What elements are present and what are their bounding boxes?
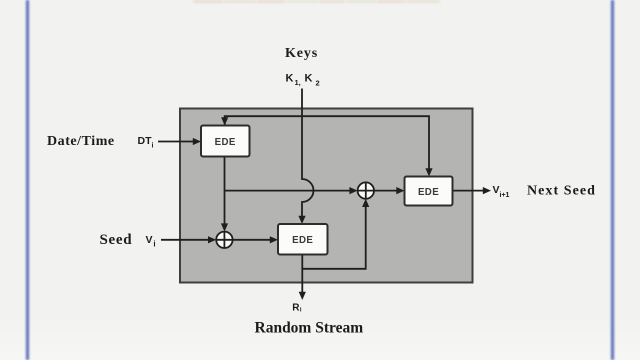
svg-text:Seed: Seed bbox=[100, 232, 133, 248]
svg-text:EDE: EDE bbox=[292, 235, 313, 246]
XOR2 circle (feedback xor) bbox=[358, 182, 374, 198]
block EDE3 (next seed encryption) bbox=[405, 177, 453, 206]
svg-text:Keys: Keys bbox=[285, 46, 318, 61]
svg-text:Vi+1: Vi+1 bbox=[493, 184, 510, 199]
slide right blue border line bbox=[611, 0, 614, 360]
cut-off slide title remnant bbox=[0, 0, 640, 1]
wire: top key branch from EDE1 to EDE3 bbox=[225, 116, 429, 169]
arrowhead into EDE2 left bbox=[270, 236, 278, 243]
svg-text:EDE: EDE bbox=[418, 187, 439, 198]
arrowhead into EDE3 top bbox=[425, 168, 432, 176]
arrowhead into EDE1 left bbox=[193, 138, 201, 145]
arrowhead into EDE3 left bbox=[396, 187, 404, 194]
arrowhead into XOR1 top bbox=[221, 223, 228, 231]
slide left blue border line bbox=[26, 0, 29, 360]
wire: XOR1 to EDE2 bbox=[233, 239, 271, 241]
wire: EDE1 bottom down to XOR1 bbox=[224, 157, 226, 225]
wire: main horizontal line to XOR2 bbox=[225, 190, 351, 192]
svg-text:DTi: DTi bbox=[138, 135, 154, 150]
arrowhead into XOR1 left bbox=[208, 236, 216, 243]
wire: EDE3 output to next seed bbox=[453, 190, 484, 192]
wire: XOR2 to EDE3 bbox=[374, 190, 398, 192]
arrowhead up into XOR2 bottom bbox=[362, 199, 369, 207]
arrowhead to V_i+1 bbox=[483, 187, 491, 194]
XOR1 circle (Seed xor) bbox=[216, 232, 232, 248]
wire: keys vertical line with hop over main horizontal bbox=[302, 89, 314, 217]
svg-text:Vi: Vi bbox=[146, 234, 156, 249]
arrowhead into XOR2 left bbox=[349, 187, 357, 194]
arrowhead down to R_i bbox=[299, 292, 306, 300]
wire: DT_i input into EDE1 bbox=[158, 141, 194, 143]
svg-text:Ri: Ri bbox=[292, 302, 302, 313]
svg-text:Date/Time: Date/Time bbox=[47, 134, 115, 149]
diagram background box bbox=[180, 109, 473, 283]
block EDE2 (random output encryption) bbox=[278, 224, 328, 255]
wire: Seed V_i input to XOR1 bbox=[161, 239, 209, 241]
svg-text:EDE: EDE bbox=[215, 137, 236, 148]
block EDE1 (Date/Time encryption) bbox=[201, 126, 250, 157]
arrowhead into EDE1 top bbox=[221, 117, 228, 125]
svg-text:Random Stream: Random Stream bbox=[255, 320, 364, 337]
svg-text:Next Seed: Next Seed bbox=[527, 184, 596, 199]
arrowhead into EDE2 top bbox=[298, 216, 305, 224]
wire: EDE2 output down and branch right up to XOR2 bbox=[302, 207, 365, 293]
svg-text:K1,K2: K1,K2 bbox=[286, 73, 320, 88]
